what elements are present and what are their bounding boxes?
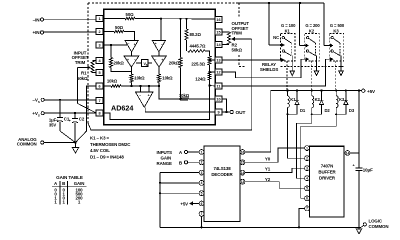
svg-text:−: − [134, 58, 136, 62]
terminal B [179, 160, 199, 165]
svg-text:OUT: OUT [236, 110, 246, 116]
svg-text:D2: D2 [325, 108, 331, 113]
svg-text:1: 1 [98, 17, 100, 21]
decoder pin 13 [240, 179, 245, 184]
pin 16 [215, 16, 222, 22]
resistor 20k right [169, 19, 182, 99]
svg-text:RANGE: RANGE [157, 161, 173, 166]
resistor 20k left [109, 45, 131, 72]
decoder pin 7 [199, 211, 204, 216]
svg-text:74LS138: 74LS138 [213, 166, 231, 171]
wire decoder pin7 to ground rail [200, 216, 202, 228]
wire K3 coil node [301, 113, 346, 198]
svg-text:+: + [56, 119, 58, 123]
potentiometer R2 50k [222, 32, 243, 53]
node pin 3 [103, 44, 127, 46]
svg-text:S: S [38, 100, 40, 104]
svg-text:225.3Ω: 225.3Ω [191, 62, 205, 67]
svg-text:5: 5 [306, 187, 308, 191]
svg-text:35V: 35V [49, 122, 56, 127]
wire pin12 to K2 [222, 58, 309, 78]
svg-text:10kΩ: 10kΩ [179, 93, 190, 98]
wire A3 output to pin 9 [145, 107, 215, 112]
pin 7 [96, 97, 103, 103]
wire gain taps [208, 59, 215, 87]
wire A3 plus input [148, 86, 150, 92]
pin 14 [215, 41, 222, 47]
svg-text:10μF: 10μF [363, 167, 373, 172]
svg-text:3: 3 [201, 171, 203, 175]
resistor 10k pin6 [103, 79, 160, 88]
svg-text:R1: R1 [81, 71, 87, 76]
svg-text:50Ω: 50Ω [126, 12, 135, 17]
svg-text:GAIN: GAIN [74, 181, 85, 186]
relay K3 contacts [329, 23, 345, 66]
svg-text:+: + [127, 58, 129, 62]
pin 12 [215, 69, 222, 75]
wire Y1 [245, 167, 305, 173]
wire A1 stage link [131, 52, 133, 56]
svg-text:K2: K2 [315, 97, 321, 102]
svg-text:NC: NC [273, 35, 279, 40]
svg-text:−: − [155, 58, 157, 62]
resistor 225.3 ohm [191, 56, 211, 72]
svg-text:B: B [62, 181, 65, 186]
Vb box [136, 60, 152, 67]
svg-text:9: 9 [217, 111, 219, 115]
buffer pin 1 [305, 146, 310, 151]
terminal logic common [361, 219, 388, 229]
svg-text:5: 5 [201, 192, 203, 196]
svg-text:4: 4 [201, 181, 203, 185]
svg-text:GAIN: GAIN [161, 155, 172, 160]
svg-text:14: 14 [241, 171, 245, 175]
buffer pin 6 [305, 196, 310, 201]
svg-text:3: 3 [98, 44, 100, 48]
terminal A [179, 150, 199, 155]
op-amp A3 [136, 92, 154, 107]
pin 13 [215, 57, 222, 63]
svg-text:15: 15 [216, 31, 220, 35]
wire K2 coil node [296, 113, 321, 178]
decoder pin 3 [199, 170, 204, 175]
svg-text:S: S [38, 113, 40, 117]
decoder pin 14 [240, 170, 245, 175]
terminal OUT [222, 110, 246, 116]
pin 4 [96, 57, 103, 63]
relay K2 contacts [305, 23, 321, 66]
decoder pin 6 [199, 201, 204, 206]
svg-text:+: + [134, 42, 136, 46]
svg-text:16: 16 [216, 18, 220, 22]
svg-text:7: 7 [98, 99, 100, 103]
svg-text:+: + [69, 119, 71, 123]
svg-text:1: 1 [201, 150, 203, 154]
svg-text:BUFFER: BUFFER [318, 170, 336, 175]
svg-text:Y2: Y2 [265, 177, 271, 182]
resistor 10k right vertical [157, 67, 173, 86]
wire bus drop K3 [324, 3, 333, 47]
svg-text:4: 4 [306, 177, 308, 181]
svg-text:K3: K3 [333, 29, 339, 34]
svg-text:DRIVER: DRIVER [319, 176, 336, 181]
svg-text:K1: K1 [285, 29, 291, 34]
svg-text:20kΩ: 20kΩ [114, 61, 125, 66]
svg-text:SHIELDS: SHIELDS [260, 67, 279, 72]
svg-text:+: + [148, 94, 150, 98]
resistor 124 ohm [195, 72, 211, 86]
buffer pin 2 [305, 156, 310, 161]
svg-text:G = 500: G = 500 [330, 23, 345, 28]
wire A2 stage link [158, 52, 160, 56]
svg-text:INPUTS: INPUTS [157, 150, 173, 155]
pin 1 [96, 15, 103, 21]
svg-text:14: 14 [346, 151, 350, 155]
svg-text:G = 100: G = 100 [281, 23, 296, 28]
svg-text:10kΩ: 10kΩ [107, 79, 118, 84]
pin 8 [96, 110, 103, 116]
svg-text:D3: D3 [349, 108, 355, 113]
svg-text:7: 7 [201, 212, 203, 216]
svg-text:16: 16 [241, 150, 245, 154]
ground logic [356, 227, 361, 234]
AD624 body [104, 9, 216, 124]
svg-text:K3: K3 [339, 97, 345, 102]
label relay shields [239, 62, 344, 72]
pin 10 [215, 96, 222, 102]
+5V rail [271, 89, 362, 91]
svg-text:+: + [161, 58, 163, 62]
svg-text:D1: D1 [300, 108, 306, 113]
label output offset trim [232, 21, 250, 35]
R1 wiper [78, 66, 97, 113]
terminal analog common [17, 137, 77, 147]
decoder pin 4 [199, 181, 204, 186]
resistor 10k feedback [159, 86, 215, 101]
potentiometer R1 50k [77, 61, 96, 82]
wire bus drop K2 [300, 3, 309, 47]
svg-text:10kΩ: 10kΩ [134, 76, 145, 81]
buffer pin 4 [305, 176, 310, 181]
svg-text:6: 6 [306, 197, 308, 201]
svg-text:7: 7 [306, 207, 308, 211]
svg-text:COMMON: COMMON [369, 224, 389, 229]
terminal +5V [362, 89, 376, 94]
svg-text:2: 2 [98, 30, 100, 34]
wire sense loop [103, 86, 210, 120]
op-amp A1 lower [124, 56, 139, 67]
wire buffer ground [298, 208, 305, 228]
op-amp A2 upper [152, 41, 165, 52]
svg-text:15: 15 [241, 161, 245, 165]
svg-text:10kΩ: 10kΩ [162, 76, 173, 81]
svg-text:+: + [155, 42, 157, 46]
relay K1 contacts [273, 23, 296, 66]
svg-text:−: − [161, 42, 163, 46]
diode D3 [344, 91, 355, 115]
svg-text:4445.7Ω: 4445.7Ω [190, 44, 207, 49]
capacitor C2 [69, 113, 85, 142]
wire pin13 to K1 [222, 58, 284, 61]
resistor 10k left vertical [130, 67, 145, 86]
svg-text:THERMOSEN DM2C: THERMOSEN DM2C [90, 142, 131, 147]
svg-text:DECODER: DECODER [211, 172, 233, 177]
note relays and diodes [90, 136, 131, 160]
terminal +Vs [32, 111, 96, 117]
svg-text:AD624: AD624 [111, 104, 133, 113]
gain table [52, 175, 87, 205]
IC 74LS138 decoder [204, 146, 240, 221]
svg-text:+5V: +5V [367, 89, 376, 94]
resistor 4445.7 ohm [188, 44, 210, 56]
wire C1 to common [60, 131, 75, 142]
svg-text:5: 5 [98, 71, 100, 75]
decoder pin 2 [199, 160, 204, 165]
shield arrow K1 [287, 61, 294, 91]
capacitor C1 [49, 100, 70, 131]
wire decoder Vcc [245, 91, 271, 153]
wire pin11 to K3 [222, 58, 333, 86]
svg-text:50kΩ: 50kΩ [232, 48, 243, 53]
op-amp A1 upper [125, 41, 138, 52]
wire top internal rail [135, 18, 215, 20]
decoder pin 1 [199, 150, 204, 155]
buffer pin 3 [305, 166, 310, 171]
wire A3 minus input [140, 86, 142, 92]
decoder pin 15 [240, 160, 245, 165]
ground analog [72, 143, 78, 154]
resistor 80.2 ohm [185, 19, 202, 51]
label inputs gain range [157, 150, 173, 166]
wire bus drop K1 [269, 3, 284, 47]
buffer pin 14 [344, 151, 359, 156]
svg-text:2: 2 [306, 157, 308, 161]
svg-text:LOGIC: LOGIC [369, 219, 383, 224]
pin 5 [96, 69, 103, 75]
svg-text:12: 12 [216, 71, 220, 75]
svg-text:B: B [146, 64, 148, 67]
IC 7407 buffer driver [310, 146, 345, 217]
svg-text:11: 11 [216, 85, 220, 89]
svg-text:6: 6 [201, 202, 203, 206]
svg-text:4.5V COIL: 4.5V COIL [90, 148, 110, 153]
svg-text:TRIM: TRIM [75, 60, 86, 65]
svg-text:−: − [128, 42, 130, 46]
svg-text:124Ω: 124Ω [195, 77, 206, 82]
svg-text:50kΩ: 50kΩ [77, 76, 88, 81]
label input offset trim [72, 51, 89, 65]
svg-text:7407N: 7407N [321, 164, 333, 169]
svg-text:Y0: Y0 [265, 156, 271, 161]
pin 6 [96, 83, 103, 89]
svg-text:C2: C2 [79, 116, 85, 121]
svg-text:13: 13 [241, 180, 245, 184]
pin 15 [215, 29, 222, 35]
svg-text:K1: K1 [290, 97, 296, 102]
shield arrow K2 [311, 61, 318, 91]
wire pin6 to common [76, 86, 96, 142]
diode D1 [295, 91, 306, 115]
wire pin1 to A2 input [160, 19, 162, 41]
svg-text:+IN: +IN [33, 30, 41, 35]
svg-text:80.2Ω: 80.2Ω [190, 32, 202, 37]
svg-text:D1 – D9 = IN4148: D1 – D9 = IN4148 [90, 154, 124, 159]
label +5V decoder [180, 201, 199, 206]
resistor 50 ohm upper [103, 12, 135, 20]
svg-text:K2: K2 [309, 29, 315, 34]
wire pin10 to output node [222, 99, 228, 113]
op-amp A2 lower [152, 56, 167, 67]
buffer pin 7 [305, 206, 310, 211]
resistor 50 ohm lower [103, 25, 135, 40]
svg-text:3: 3 [306, 167, 308, 171]
svg-text:1: 1 [306, 146, 308, 150]
buffer pin 5 [305, 186, 310, 191]
svg-text:8: 8 [98, 112, 100, 116]
svg-text:50Ω: 50Ω [115, 25, 124, 30]
relay coil K1 [288, 91, 297, 115]
svg-text:GAIN TABLE: GAIN TABLE [56, 175, 83, 180]
svg-text:+5V: +5V [180, 201, 188, 206]
svg-text:6: 6 [98, 85, 100, 89]
svg-text:TRIM: TRIM [232, 30, 243, 35]
wire gain bus [268, 2, 324, 4]
input terminal -IN [33, 17, 97, 22]
input terminal +IN [33, 30, 97, 35]
svg-text:−: − [139, 93, 141, 97]
wire decoder enable bus [159, 173, 199, 228]
svg-text:20kΩ: 20kΩ [169, 61, 180, 66]
pin 2 [96, 28, 103, 34]
svg-text:13: 13 [216, 59, 220, 63]
svg-text:G = 200: G = 200 [305, 23, 320, 28]
svg-text:COMMON: COMMON [17, 141, 37, 146]
diode D2 [319, 91, 330, 115]
logic ground rail [160, 226, 361, 228]
svg-text:2: 2 [201, 161, 203, 165]
pin 9 [215, 109, 222, 115]
svg-text:–IN: –IN [33, 17, 41, 22]
svg-text:10: 10 [216, 98, 220, 102]
shield arrow K3 [336, 61, 344, 91]
pin 3 [96, 42, 103, 48]
wire K1 coil node [286, 113, 304, 158]
decoder pin 5 [199, 191, 204, 196]
svg-text:K1 – K3 =: K1 – K3 = [90, 136, 110, 141]
capacitor 10uF [352, 91, 373, 228]
R2 wiper [88, 37, 252, 130]
decoder pin 16 [240, 150, 245, 155]
pin 11 [215, 83, 222, 89]
wire Y0 [245, 148, 305, 162]
terminal -Vs [32, 98, 96, 104]
svg-text:Y1: Y1 [265, 167, 271, 172]
relay coil K3 [336, 91, 345, 115]
wire Y2 [245, 177, 305, 188]
relay coil K2 [312, 91, 321, 115]
input guard shield dashed [88, 3, 269, 123]
